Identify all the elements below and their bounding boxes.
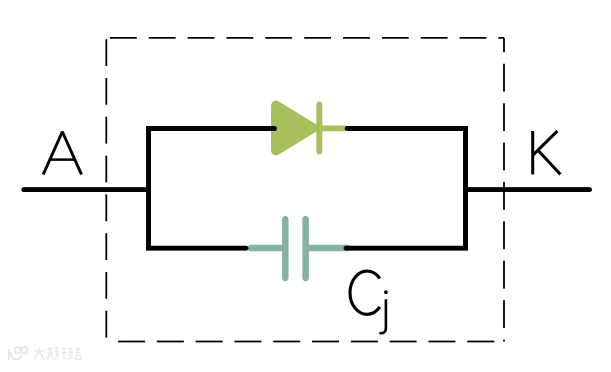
box left edge <box>105 38 107 345</box>
box top edge <box>106 37 504 39</box>
box bottom edge <box>106 341 504 343</box>
node label K <box>533 131 561 174</box>
right capacitor wire <box>306 245 348 251</box>
watermark text 大数跨境 <box>34 347 82 360</box>
wire: right inner branch (diode and capacitor to cathode node) <box>346 129 466 249</box>
left plate <box>282 219 289 278</box>
cathode stub wire <box>319 126 345 132</box>
cathode bar <box>316 105 322 152</box>
capacitor Cj (teal) <box>251 219 348 278</box>
right plate <box>302 219 309 278</box>
diode D1 (green) <box>276 105 345 152</box>
dashed package outline box <box>106 38 504 345</box>
wire: cathode lead K <box>466 187 590 192</box>
wire: anode lead A <box>24 187 148 192</box>
box right edge <box>503 38 505 342</box>
value label Cj <box>350 271 388 333</box>
triangle <box>276 106 313 151</box>
watermark logo <box>9 347 27 360</box>
left capacitor wire <box>251 245 286 251</box>
wire: left inner branch (anode node to diode and capacitor) <box>149 129 275 249</box>
node label A <box>43 132 81 175</box>
